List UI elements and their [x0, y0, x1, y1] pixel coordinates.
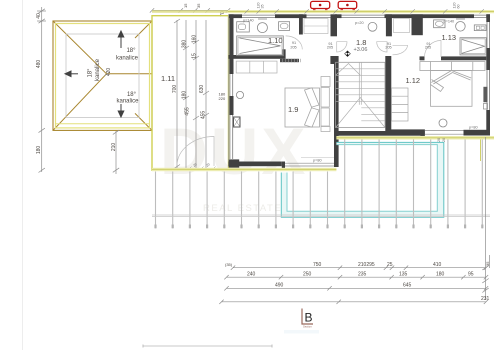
svg-text:630: 630 [199, 85, 205, 94]
bath 1.13 sink [434, 20, 445, 28]
svg-text:231: 231 [481, 296, 490, 302]
svg-text:p=80: p=80 [313, 159, 322, 163]
footer line [143, 345, 272, 347]
svg-text:25: 25 [387, 262, 393, 268]
svg-text:35: 35 [261, 5, 265, 9]
svg-text:20: 20 [437, 138, 441, 142]
svg-text:(35): (35) [225, 262, 233, 267]
svg-text:+3.06: +3.06 [354, 47, 368, 53]
terrace dim line b [183, 20, 189, 168]
svg-text:455: 455 [185, 107, 191, 116]
svg-text:35: 35 [485, 261, 490, 266]
1.10 closet niche [304, 19, 328, 34]
svg-text:180: 180 [182, 91, 188, 100]
svg-text:1.9: 1.9 [288, 105, 298, 114]
bath 1.13 south wall right [441, 56, 486, 60]
skylight S2 [338, 1, 357, 9]
hall sink [368, 22, 377, 31]
hall door jamb left [330, 56, 336, 64]
svg-text:p=80: p=80 [469, 125, 478, 129]
bottom dim row 2 [224, 275, 488, 279]
bath 1.13 south wall left [420, 56, 425, 60]
bottom dim row 1 [231, 266, 488, 270]
kanalice arrow left [65, 71, 78, 77]
hall door arc left [337, 42, 347, 52]
svg-text:1.11: 1.11 [161, 74, 175, 83]
svg-text:1.13: 1.13 [442, 33, 457, 42]
svg-text:455: 455 [201, 111, 207, 120]
east wall [486, 14, 490, 135]
pool deck ring fill [281, 142, 444, 217]
west wall [228, 14, 230, 167]
south wall right section [336, 131, 391, 136]
svg-text:95: 95 [468, 272, 474, 278]
bath 1.10 vanity [237, 22, 250, 32]
section marker B [302, 309, 313, 325]
hall wall stub B3 [412, 14, 423, 35]
svg-text:60: 60 [457, 5, 461, 9]
svg-text:420: 420 [106, 68, 112, 77]
svg-text:210: 210 [111, 143, 117, 152]
lamp circle 1.9 [236, 91, 243, 98]
svg-text:18°: 18° [126, 48, 136, 54]
svg-text:kanalice: kanalice [116, 99, 139, 105]
svg-text:240: 240 [247, 272, 256, 278]
terrace door arc [177, 137, 214, 167]
wardrobe 1.12 [392, 88, 409, 121]
terrace top dim line [150, 8, 230, 12]
west wall window [230, 74, 233, 159]
bath 1.13 toilet [456, 22, 466, 32]
lamp circle 1.12 [439, 119, 447, 127]
terrace dim line c [193, 20, 199, 168]
bed 1.12 [431, 71, 473, 107]
south wall jamb [420, 130, 424, 136]
wall 1.10 south [229, 55, 283, 59]
hall door arc right [377, 42, 387, 52]
svg-text:180: 180 [436, 272, 445, 278]
svg-text:kanalice: kanalice [116, 56, 139, 62]
svg-text:750: 750 [313, 262, 322, 268]
roof extra yellow eave line [56, 123, 149, 125]
svg-text:18°: 18° [88, 68, 94, 78]
door jamb 1.10 [283, 49, 286, 59]
terrace top second yellow line [152, 10, 494, 12]
hall wall stub B2 [386, 14, 392, 36]
bedside column 1.9 [321, 77, 330, 132]
svg-text:35: 35 [196, 3, 201, 8]
svg-text:15: 15 [192, 53, 198, 59]
kanalice arrow down [118, 104, 124, 117]
svg-text:20: 20 [442, 138, 446, 142]
yellow east edge [480, 140, 482, 162]
p=80 leader line [301, 156, 334, 158]
bath 1.13 washer [474, 25, 486, 31]
dim 210 vertical below roof [113, 130, 119, 174]
svg-text:205: 205 [290, 45, 296, 49]
sliding door 1.12 [425, 130, 464, 134]
svg-text:480: 480 [36, 60, 42, 69]
svg-text:645: 645 [403, 283, 412, 289]
page border line [22, 0, 24, 350]
skylight S1 [311, 1, 330, 9]
roof ridge [107, 73, 153, 75]
svg-text:Section: Section [303, 325, 312, 329]
roof inner yellow line [56, 24, 150, 128]
sliding door 1.9 [282, 163, 335, 166]
door arc 1.13 [425, 41, 442, 58]
yellow band below south wall right [336, 136, 494, 140]
south wall right corner [464, 130, 491, 136]
top yellow eave band over building [228, 10, 494, 13]
bottom dim row 4 [219, 300, 488, 304]
bath 1.13 shower [460, 38, 486, 55]
top wall dim ticks [245, 9, 484, 13]
bath 1.10 tub [237, 36, 284, 56]
terrace 1.11 yellow border [152, 16, 229, 171]
hall niche lines [394, 19, 410, 33]
svg-text:15: 15 [183, 3, 188, 8]
wall 1.10 east [299, 14, 303, 34]
north wall [229, 14, 491, 18]
yellow line below 1.9 [152, 168, 336, 171]
svg-text:B: B [305, 311, 313, 325]
right vertical dim line [482, 137, 489, 300]
south wall 1.9 [229, 162, 282, 167]
svg-text:40: 40 [36, 13, 42, 19]
terrace dim line a [174, 19, 180, 169]
svg-text:p=20: p=20 [355, 21, 364, 25]
stairs [336, 62, 385, 127]
bottom dim row 3 [224, 286, 488, 290]
pergola rail [152, 215, 490, 217]
bath 1.10 toilet [257, 23, 267, 33]
hall wall stub B1 [331, 14, 338, 36]
pergola verticals [156, 140, 483, 229]
svg-text:210295: 210295 [358, 262, 375, 268]
roof outer edge [53, 21, 152, 130]
svg-text:490: 490 [275, 283, 284, 289]
svg-text:380: 380 [182, 40, 188, 49]
svg-text:135: 135 [399, 272, 408, 278]
svg-text:205: 205 [425, 46, 431, 50]
svg-text:205: 205 [385, 46, 391, 50]
bath 1.10 sink [279, 22, 290, 31]
bed 1.9 [285, 88, 320, 127]
door arc 1.12 entry [393, 45, 408, 55]
svg-text:410: 410 [433, 262, 442, 268]
svg-text:250: 250 [303, 272, 312, 278]
stair east wall [385, 56, 391, 131]
level marker diamond [345, 51, 351, 57]
radiator east 1.12 [483, 87, 487, 102]
kanalice arrow up [118, 31, 124, 48]
pool outer line [281, 142, 444, 217]
svg-text:700: 700 [172, 85, 178, 94]
bed 1.12 headboard row [420, 62, 485, 71]
north wall window lines [242, 15, 486, 17]
pergola caps [156, 225, 483, 229]
radiator west 1.9 [234, 117, 241, 127]
stair west wall [334, 56, 339, 167]
svg-text:1.8: 1.8 [356, 38, 366, 47]
svg-text:205: 205 [327, 46, 333, 50]
roof eaves wall line [66, 34, 139, 118]
svg-text:220: 220 [219, 96, 226, 101]
left dimension line [37, 7, 46, 173]
faint blue smudge [284, 330, 319, 334]
svg-text:18°: 18° [127, 92, 137, 98]
svg-text:160: 160 [192, 35, 198, 44]
svg-text:180: 180 [36, 146, 42, 155]
terrace dim line d [203, 20, 209, 168]
radiator 1.10 [280, 59, 299, 62]
wardrobe row 1.9 [236, 61, 277, 73]
svg-text:REAL ESTATE: REAL ESTATE [203, 203, 282, 214]
door arc 1.10 [286, 36, 303, 50]
svg-text:kanalice: kanalice [95, 58, 101, 81]
roof hip diagonals [53, 21, 152, 130]
svg-text:1.12: 1.12 [406, 76, 421, 85]
pool inner line [287, 145, 437, 212]
east wall windows [487, 22, 490, 110]
terrace edge tick labels [188, 167, 216, 171]
svg-text:235: 235 [358, 272, 367, 278]
